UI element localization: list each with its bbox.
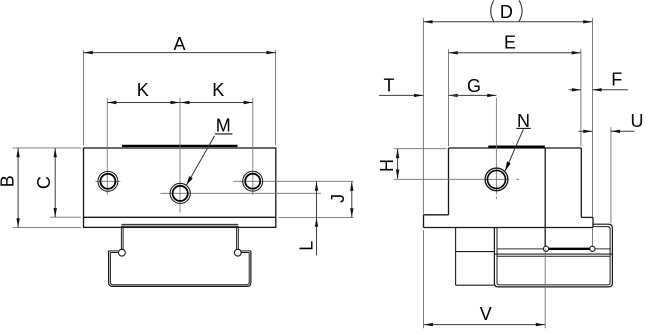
svg-text:L: L [296,241,316,251]
hole right centerline horizontal extended to J dim [233,180,353,182]
hole right centerline vertical [252,98,254,195]
dimension L arrows [315,182,318,227]
dimension K arrows [107,101,253,104]
rail body outer wall side view [494,224,612,287]
dimension D line [423,21,592,23]
rail hook circle right side view [590,246,595,251]
dimension D extension right / F,U reference [592,18,594,217]
svg-text:G: G [467,76,481,96]
hole N [485,168,508,191]
dimension V extension right [544,249,546,329]
svg-text:B: B [0,175,18,187]
clamp hook circle left [119,249,126,256]
dimension U arrow pointing right [583,130,592,133]
step line extension to J dim [279,216,354,218]
dimension B line [17,148,19,227]
dimension A extension lines [84,50,276,145]
dimension B extension lines [13,148,82,228]
side lower left block [456,228,495,286]
label M underline [215,133,233,135]
dimension D extension left / T reference / V extension [422,18,424,215]
clamp top double line front view [121,224,238,226]
clamp ear top left front view [109,251,119,253]
dimension F line left tail [569,89,582,91]
dimension D parenthesis left [491,0,494,21]
rail wall double line side view [494,253,612,255]
label N leader line [505,129,523,171]
dimension G line [449,94,497,96]
dimension C extension line [50,216,81,218]
svg-text:F: F [611,70,622,90]
dimension E extension lines [449,49,581,146]
dimension U extension line [610,127,612,223]
svg-text:K: K [137,80,149,100]
hole left centerline horizontal [95,180,120,182]
dimension T arrow right-pointing [414,94,423,97]
side body right edge [580,148,582,217]
clamp ear top right front view [241,251,251,253]
hole N centerline horizontal dash [516,178,519,180]
side body flange left edge [423,215,425,228]
dimension G arrow right-pointing at hole centerline [487,94,496,97]
dimension C line [54,148,56,217]
thick insert line top of side body [488,146,545,148]
dimension E line [449,52,581,54]
body internal step line front view [84,216,276,218]
side body left edge [448,148,450,215]
dimension V line [424,324,545,326]
dimension F arrow pointing right at body edge [572,88,581,91]
svg-text:V: V [480,304,492,324]
rail body inner wall side view [497,227,610,285]
dimension D arrows [423,20,592,23]
clamp inner wall left front view [121,226,123,249]
dimension T / G shared arrow left-pointing at body edge [449,94,458,97]
side body top edge [449,147,582,149]
dimension U line left tail [579,130,593,132]
label M leader line [186,136,214,185]
side body flange right edge [592,217,594,227]
dimension H extension top [394,148,447,150]
hole middle front view (M) [170,183,190,203]
side body flange bottom [424,227,594,229]
rail thick line side view [547,248,593,250]
dimension A line [84,52,276,54]
svg-text:A: A [173,34,185,54]
dimension D parenthesis right [519,0,522,21]
dimension B arrows [16,148,19,227]
label N leader arrowhead [505,161,511,171]
clamp hook circle right [234,249,241,256]
label N underline [516,127,531,129]
hole middle centerline horizontal extended to L dim [160,192,321,194]
hole left front view [98,171,118,191]
dimension K line [107,102,253,104]
side body right step [581,216,593,218]
hole middle centerline vertical [179,98,181,213]
thick insert line top of front body [122,145,238,147]
hole N centerline vertical dash [495,197,497,200]
svg-text:C: C [34,176,54,189]
dimension F arrow pointing left at flange edge [593,88,602,91]
svg-text:M: M [216,116,231,136]
hole left centerline vertical [106,98,108,195]
side body left step [424,214,449,216]
svg-text:H: H [377,159,397,172]
label M leader arrowhead [186,176,192,185]
svg-text:K: K [212,80,224,100]
rail thin line side view [497,248,611,250]
dimension J arrows [350,182,353,218]
svg-text:D: D [500,2,513,22]
clamp outer box inner wall front view [110,253,249,285]
dimension U arrow pointing left [611,130,620,133]
clamp outer box outer wall front view [109,251,251,287]
dimension E arrows [449,51,581,54]
dimension T line left part [379,94,423,96]
hole N centerline horizontal / H extension [394,178,509,180]
side body middle vertical edge [544,148,546,246]
clamp inner wall right front view [237,226,239,249]
svg-text:E: E [504,33,516,53]
svg-text:U: U [631,111,644,131]
dimension F line right tail [593,89,628,91]
dimension C arrows [54,148,57,217]
svg-text:T: T [384,76,395,96]
body outline front view [84,148,276,227]
rail hook circle left side view [543,246,548,251]
dimension L line [316,181,318,255]
dimension V arrows [424,323,545,326]
dimension H arrows [396,149,399,179]
dimension A arrows [84,51,276,54]
hole right front view [243,171,263,191]
dimension J line [351,182,353,218]
svg-text:J: J [328,194,348,203]
dimension H line [397,149,399,179]
dimension U line right tail [611,130,635,132]
hole N centerline vertical [495,98,497,195]
